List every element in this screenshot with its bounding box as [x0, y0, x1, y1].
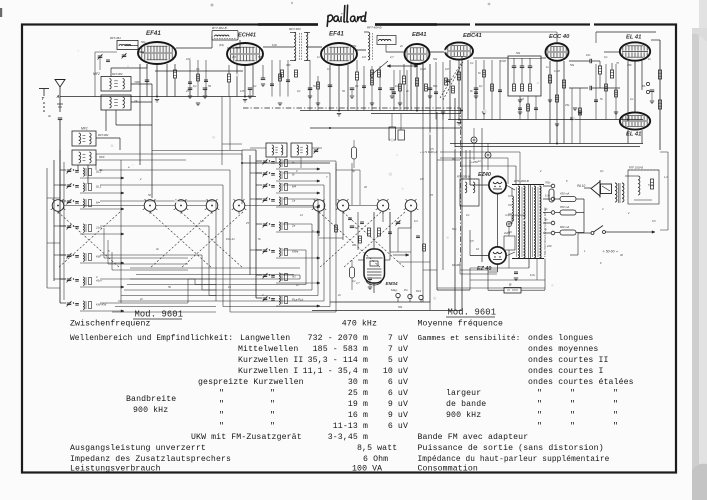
tuning coil LM2 (Ib)	[263, 172, 268, 174]
svg-text:50: 50	[208, 84, 211, 88]
svg-text:EM34: EM34	[386, 281, 398, 286]
svg-text:EF41: EF41	[329, 31, 344, 38]
tuning coil LM5 (2a)	[263, 223, 268, 225]
svg-text:RTF-301-B: RTF-301-B	[457, 175, 470, 179]
tuning coil LM6 (KWa)	[263, 249, 268, 251]
svg-text:Mod. 9601: Mod. 9601	[448, 308, 497, 318]
svg-text:5: 5	[108, 249, 110, 253]
svg-text:ondes courtes I: ondes courtes I	[528, 366, 604, 376]
fuse F3	[560, 230, 576, 235]
svg-text:0,1: 0,1	[604, 55, 608, 59]
svg-text:": "	[270, 399, 275, 409]
cluster left of transformer	[504, 236, 515, 250]
ground EBC41	[457, 122, 461, 124]
frame top reinforcing dashes near logo	[258, 23, 318, 26]
wire +250 rail	[481, 150, 483, 262]
svg-text:Puissance de sortie (sans dist: Puissance de sortie (sans distorsion)	[418, 443, 604, 453]
svg-text:1n: 1n	[296, 283, 299, 287]
tuning coil L4 (21m)	[67, 225, 72, 227]
wire fuse outputs	[583, 199, 585, 233]
svg-text:0,5M: 0,5M	[500, 59, 507, 63]
svg-text:1n: 1n	[317, 55, 320, 59]
band loop wire 3	[100, 200, 216, 202]
extra resistors top band	[197, 74, 200, 81]
solid line left of MF2	[155, 70, 243, 72]
svg-text:50k: 50k	[258, 55, 263, 59]
svg-text:ondes longues: ondes longues	[528, 333, 593, 343]
tube V9 EZ40 rectifier	[489, 176, 506, 193]
svg-text:5,2k: 5,2k	[648, 183, 654, 187]
bottom bundle extra horizontals	[130, 267, 300, 269]
band switch wafer S4	[206, 200, 218, 212]
tuning coil L3 (M=)	[67, 200, 72, 202]
input trimmer	[122, 54, 127, 56]
tube V10 EZ40 (lower)	[489, 247, 506, 264]
svg-text:50k: 50k	[570, 63, 575, 67]
ground ECH41	[243, 99, 247, 101]
terminal Mag	[396, 293, 400, 297]
svg-text:": "	[570, 421, 575, 431]
svg-text:Zwischenfrequenz: Zwischenfrequenz	[70, 319, 151, 329]
capacitor C4	[446, 79, 451, 81]
svg-text:35,3 - 114 m: 35,3 - 114 m	[308, 356, 368, 365]
svg-text:MF2: MF2	[93, 72, 100, 76]
svg-text:9 uV: 9 uV	[388, 411, 408, 420]
wire left vertical x60	[59, 150, 61, 200]
svg-text:": "	[570, 410, 575, 420]
capacitor C7	[650, 89, 655, 91]
svg-text:Leistungsverbrauch: Leistungsverbrauch	[70, 464, 161, 474]
svg-text:6,8k: 6,8k	[272, 43, 278, 47]
coupling capacitor C6	[589, 86, 591, 91]
svg-text:5k: 5k	[258, 237, 261, 241]
middle bank feeder wires	[255, 150, 257, 298]
svg-text:300: 300	[286, 63, 291, 67]
svg-text:2: 2	[627, 211, 630, 215]
svg-text:": "	[219, 421, 224, 431]
electrolytic capacitor CE1	[471, 137, 477, 143]
mid extra components	[348, 217, 352, 219]
svg-text:OFF: OFF	[135, 80, 141, 84]
svg-text:Ausgangsleistung unverzerrt: Ausgangsleistung unverzerrt	[70, 443, 206, 453]
svg-text:16: 16	[476, 247, 479, 251]
terminal Pickup	[419, 295, 423, 299]
svg-text:+ 4,7k 6600 µF: + 4,7k 6600 µF	[420, 150, 438, 154]
wire top bus y110	[300, 110, 462, 112]
svg-text:8: 8	[566, 179, 568, 183]
svg-text:EF41: EF41	[146, 30, 161, 37]
wire MF1 feeds	[77, 165, 79, 170]
wires above transformer right	[440, 151, 520, 153]
svg-text:": "	[613, 388, 618, 398]
svg-text:185 - 583 m: 185 - 583 m	[313, 345, 368, 354]
svg-text:1: 1	[584, 249, 586, 253]
svg-text:DL: DL	[135, 99, 139, 103]
wire EB41 to EBC41	[429, 51, 445, 53]
svg-text:1M: 1M	[362, 55, 366, 59]
svg-text:5p: 5p	[352, 169, 355, 173]
resistor R3	[355, 72, 358, 80]
inner loop rectangles upper	[96, 153, 242, 155]
wire long feeder x462	[461, 56, 463, 310]
svg-text:": "	[219, 410, 224, 420]
svg-text:19 m: 19 m	[348, 400, 368, 409]
transformer T3 RFT-404-B windings	[368, 32, 370, 60]
svg-text:gespreizte Kurzwellen: gespreizte Kurzwellen	[198, 377, 304, 387]
svg-text:0,1: 0,1	[253, 84, 257, 88]
svg-text:220: 220	[546, 244, 552, 248]
vertical pill component	[352, 147, 357, 159]
svg-text:ondes courtes étalées: ondes courtes étalées	[528, 377, 634, 387]
wire ECH41 to T2	[263, 46, 294, 48]
wire EB41 pins	[410, 64, 412, 111]
svg-text:RFT-363: RFT-363	[289, 27, 301, 31]
wire EZ40 lower leads	[470, 255, 489, 257]
svg-text:0,1: 0,1	[193, 84, 197, 88]
svg-text:Consommation: Consommation	[418, 464, 478, 474]
output transformer	[615, 183, 617, 202]
svg-text:Mittelwellen: Mittelwellen	[238, 344, 298, 354]
svg-text:11,1 - 35,4 m: 11,1 - 35,4 m	[303, 367, 368, 376]
svg-text:M=: M=	[96, 201, 100, 205]
band switch wafer S1	[52, 200, 64, 212]
wire top bus y96	[60, 96, 256, 98]
svg-text:Bandbreite: Bandbreite	[126, 394, 176, 404]
extra grounds top band	[196, 102, 200, 104]
svg-text:4: 4	[262, 293, 264, 297]
svg-text:10 uV: 10 uV	[383, 367, 408, 376]
tuning coil L2 (DL1)	[67, 184, 72, 186]
tone network box	[508, 56, 541, 96]
svg-text:1,2: 1,2	[664, 175, 668, 179]
svg-text:2n: 2n	[337, 293, 341, 297]
svg-text:6 Ohm: 6 Ohm	[363, 454, 388, 464]
wire antenna down	[59, 120, 61, 150]
extra verticals right-top	[465, 150, 467, 178]
svg-text:50k: 50k	[433, 57, 438, 61]
band switch wafer S2	[144, 200, 156, 212]
resistor R2	[227, 74, 230, 82]
tuning coil L7 (KW-KW)	[67, 302, 72, 304]
supplementary speaker dashed box	[628, 170, 659, 204]
svg-text:PA 10: PA 10	[577, 184, 586, 188]
svg-text:Mod. 9601: Mod. 9601	[135, 310, 184, 320]
svg-text:ECC 40: ECC 40	[549, 34, 570, 40]
svg-text:900 kHz: 900 kHz	[133, 405, 168, 415]
wire bus y146 right	[455, 146, 640, 148]
svg-text:EB41: EB41	[412, 32, 427, 38]
extra caps top band	[188, 81, 192, 83]
antenna coupling cap	[58, 117, 63, 119]
svg-text:7: 7	[326, 175, 328, 179]
svg-text:0,3M: 0,3M	[554, 69, 561, 73]
tube V11 EM34 magic eye	[364, 249, 385, 283]
mains switch	[578, 232, 591, 234]
svg-text:EZ 40: EZ 40	[477, 266, 491, 272]
svg-text:110|125|145|220|245: 110|125|145|220|245	[505, 214, 526, 217]
ground EF41b	[337, 113, 341, 115]
wire T3 to EB41	[386, 51, 405, 53]
svg-text:0,1: 0,1	[297, 89, 301, 93]
wire em34 region verticals	[357, 212, 359, 250]
wire MF boxes right	[131, 83, 152, 85]
more resistors mid	[281, 70, 284, 77]
svg-text:1n: 1n	[546, 65, 549, 69]
wire to switch	[96, 137, 120, 139]
wire EZ40 top leads	[470, 184, 489, 186]
svg-text:25p: 25p	[351, 44, 357, 48]
svg-text:1,4: 1,4	[200, 219, 204, 223]
svg-text:ondes moyennes: ondes moyennes	[528, 344, 598, 354]
svg-text:": "	[270, 388, 275, 398]
electrolytic capacitor CE2	[485, 152, 491, 158]
svg-text:T.33A 700V 50mA 6,3V 4V 0,1A 2: T.33A 700V 50mA 6,3V 4V 0,1A 220 125 110	[544, 207, 547, 257]
svg-text:30 m: 30 m	[348, 378, 368, 387]
scan mottling	[236, 74, 239, 77]
fuse F2	[560, 210, 576, 215]
wire EM34 feed	[373, 212, 375, 249]
wire fuse R leads	[488, 289, 504, 291]
vertical wire x140	[139, 64, 141, 165]
svg-text:1M: 1M	[445, 67, 449, 71]
fuse F1	[560, 197, 576, 202]
svg-text:50k: 50k	[516, 51, 521, 55]
svg-text:MF1: MF1	[81, 127, 88, 131]
svg-text:900 kHz: 900 kHz	[446, 410, 481, 420]
band switch wafer S8	[377, 200, 389, 212]
resistor R10	[598, 66, 601, 74]
IF can MF1 b	[72, 150, 96, 165]
svg-text:Wellenbereich und Empfindlichk: Wellenbereich und Empfindlichkeit:	[70, 335, 233, 343]
fuse R box	[504, 288, 521, 294]
tuning coil LM3 (M4)	[263, 184, 268, 186]
svg-text:1n: 1n	[478, 159, 481, 163]
svg-text:5k: 5k	[600, 97, 603, 101]
svg-text:Pu: Pu	[404, 288, 408, 292]
svg-text:1n: 1n	[648, 57, 651, 61]
wire top right along border	[596, 31, 656, 33]
svg-text:8: 8	[312, 229, 314, 233]
dashed feedback diagonal EBC41	[443, 62, 463, 100]
wire heater to EZ40s	[506, 185, 515, 190]
svg-text:25: 25	[429, 193, 433, 197]
scan artifact: top smudges	[211, 4, 214, 7]
svg-text:732 - 2070 m: 732 - 2070 m	[308, 334, 368, 343]
wire EL41 plate to lower EL41	[634, 61, 636, 112]
wire long feeder x455	[454, 98, 456, 310]
resistor R9	[555, 95, 558, 102]
svg-text:PLK-41: PLK-41	[226, 237, 235, 241]
wire bus y163	[242, 162, 330, 164]
svg-text:4x0,1: 4x0,1	[504, 231, 511, 235]
capacitor C1	[145, 79, 150, 81]
svg-text:(K4): (K4)	[219, 43, 224, 47]
wire EZ40 junction	[497, 194, 499, 247]
resistor R6	[457, 72, 460, 80]
wire bottom bus y290	[437, 289, 470, 291]
svg-text:Kurzwellen II: Kurzwellen II	[238, 355, 303, 365]
svg-text:0,1: 0,1	[470, 61, 474, 65]
svg-text:0,1: 0,1	[630, 97, 634, 101]
svg-text:30: 30	[352, 243, 355, 247]
decoupling parts row	[188, 87, 193, 89]
svg-text:EBC41: EBC41	[463, 33, 482, 39]
svg-text:6,3v: 6,3v	[530, 273, 536, 277]
trimmer TC1	[396, 221, 401, 223]
svg-text:TA: TA	[642, 84, 646, 88]
svg-text:6 uV: 6 uV	[388, 389, 408, 398]
frame top gap under logo	[318, 23, 375, 27]
band switch wafer S6	[313, 200, 325, 212]
svg-text:RFT-361: RFT-361	[110, 36, 121, 40]
wire mid verticals to bus	[382, 212, 384, 222]
svg-text:a: a	[128, 166, 130, 169]
svg-text:0,5M: 0,5M	[420, 67, 427, 71]
resistor R21	[378, 228, 381, 236]
vertical bundle center-right	[422, 64, 424, 302]
left extra vertical pair	[46, 168, 48, 288]
IF transformer dashed can	[460, 179, 479, 206]
svg-text:6,3v: 6,3v	[545, 195, 550, 198]
resistor R12	[658, 70, 661, 79]
wire bus y119 right	[448, 119, 643, 121]
band loop wire 7	[100, 302, 188, 304]
svg-text:50p: 50p	[141, 40, 146, 44]
wire T1 to ECH41	[239, 40, 241, 48]
svg-text:6 uV: 6 uV	[388, 378, 408, 387]
svg-text:4,7: 4,7	[390, 55, 394, 59]
wire speaker leads	[584, 187, 591, 189]
capacitor C2	[261, 77, 266, 79]
svg-text:50p: 50p	[452, 227, 457, 231]
wire bus y143 right	[450, 143, 643, 145]
resistor R11	[610, 70, 613, 78]
band switch wafer S9	[405, 200, 417, 212]
svg-text:largeur: largeur	[446, 388, 481, 398]
tuning coil LM1 (Ia)	[263, 160, 268, 162]
svg-text:70: 70	[616, 61, 619, 65]
resistor R20	[368, 228, 371, 236]
svg-text:ondes courtes II: ondes courtes II	[528, 355, 609, 365]
paillard logo	[327, 5, 366, 26]
shield dash-dot line vertical	[460, 108, 462, 262]
spec table	[70, 319, 634, 474]
svg-text:50: 50	[342, 89, 345, 93]
svg-text:7 uV: 7 uV	[388, 334, 408, 343]
pill component near EM34	[350, 267, 355, 278]
antenna A	[55, 80, 65, 88]
oscillator switch circle stubs	[342, 212, 344, 240]
volume pot dashed arrow	[440, 62, 462, 98]
svg-text:∿ 50-60 ≁: ∿ 50-60 ≁	[602, 250, 618, 254]
svg-text:A: A	[56, 94, 60, 99]
svg-text:Mag.: Mag.	[391, 288, 398, 292]
svg-text:700v: 700v	[545, 182, 551, 185]
svg-text:Langwellen: Langwellen	[240, 333, 290, 343]
svg-text:RFT-362: RFT-362	[98, 133, 109, 137]
svg-text:RYT-362-B: RYT-362-B	[212, 26, 227, 30]
svg-text:RFT-363: RFT-363	[112, 72, 123, 76]
svg-text:": "	[219, 399, 224, 409]
wire grid EF41 pins	[146, 64, 148, 97]
band switch wafer S3	[175, 200, 187, 212]
svg-text:": "	[219, 388, 224, 398]
ground EF41 cathode	[155, 99, 159, 101]
tuning coil LM4 (1a)	[263, 198, 268, 200]
svg-text:25 m: 25 m	[348, 389, 368, 398]
shield dash-dot line horizontal	[243, 107, 461, 109]
double arrow alignment mark	[387, 65, 418, 67]
svg-text:30: 30	[620, 253, 623, 257]
svg-text:RFT-404-B: RFT-404-B	[367, 26, 382, 30]
svg-text:11-13 m: 11-13 m	[333, 422, 368, 431]
svg-text:6k: 6k	[470, 89, 473, 93]
svg-text:4: 4	[602, 207, 604, 211]
right frame stub wires	[667, 152, 669, 230]
svg-text:850 mA: 850 mA	[560, 205, 569, 209]
transformer T2 RFT-363 windings	[294, 33, 296, 61]
resistor R4	[402, 76, 405, 84]
band loop wire 4	[100, 225, 209, 227]
svg-text:": "	[537, 410, 542, 420]
svg-text:7 uV: 7 uV	[388, 345, 408, 354]
svg-text:9 uV: 9 uV	[388, 400, 408, 409]
input filter box	[117, 41, 138, 50]
svg-text:600 mA: 600 mA	[560, 225, 569, 229]
scan artifact: left edge dark dash	[0, 8, 2, 17]
svg-text:Pick: Pick	[416, 289, 422, 293]
wire pickup bus	[330, 301, 430, 303]
grounds under ECC40 area	[548, 99, 552, 101]
wire EF41 left stub	[138, 51, 144, 53]
svg-text:": "	[270, 410, 275, 420]
wire output to supp box	[625, 175, 638, 177]
switch ganging dashed diagonals	[150, 212, 212, 268]
tuning coil LM8 (PLa-PLb)	[263, 297, 268, 299]
svg-text:470 kHz: 470 kHz	[342, 319, 377, 329]
svg-text:Gammes et sensibilité:: Gammes et sensibilité:	[418, 335, 521, 343]
wire EF41b to T3	[357, 49, 366, 51]
resistor R1	[173, 70, 176, 78]
svg-text:2n: 2n	[139, 297, 143, 301]
svg-text:4,7: 4,7	[356, 281, 360, 285]
switch row connecting wire	[64, 205, 144, 207]
resistor R5	[415, 78, 418, 86]
wire long feeder x430	[429, 64, 431, 302]
wire EF41b pins	[329, 65, 331, 111]
svg-text:50: 50	[148, 193, 151, 197]
wire to EL41 grid	[604, 51, 619, 53]
svg-text:5n: 5n	[478, 71, 481, 75]
svg-text:ECH41: ECH41	[238, 33, 256, 39]
svg-text:T: T	[42, 96, 45, 101]
svg-text:": "	[537, 388, 542, 398]
svg-text:Impedanz des Zusatzlautspreche: Impedanz des Zusatzlautsprechers	[70, 454, 231, 464]
svg-text:Kurzwellen I: Kurzwellen I	[238, 366, 298, 376]
wire MF2 to bus	[105, 110, 107, 131]
transformer small primary taps	[512, 196, 513, 221]
svg-text:4v: 4v	[545, 219, 548, 222]
secondary terminal posts	[543, 185, 551, 187]
svg-text:": "	[613, 421, 618, 431]
svg-text:6 uV: 6 uV	[388, 422, 408, 431]
svg-text:FP-308: FP-308	[452, 263, 461, 267]
earth terminal T	[39, 88, 49, 90]
IF can MF2 a	[101, 77, 131, 92]
coupling capacitor C5	[589, 59, 591, 64]
wire EBC41 to tone box	[473, 57, 508, 59]
svg-text:25: 25	[245, 221, 249, 225]
